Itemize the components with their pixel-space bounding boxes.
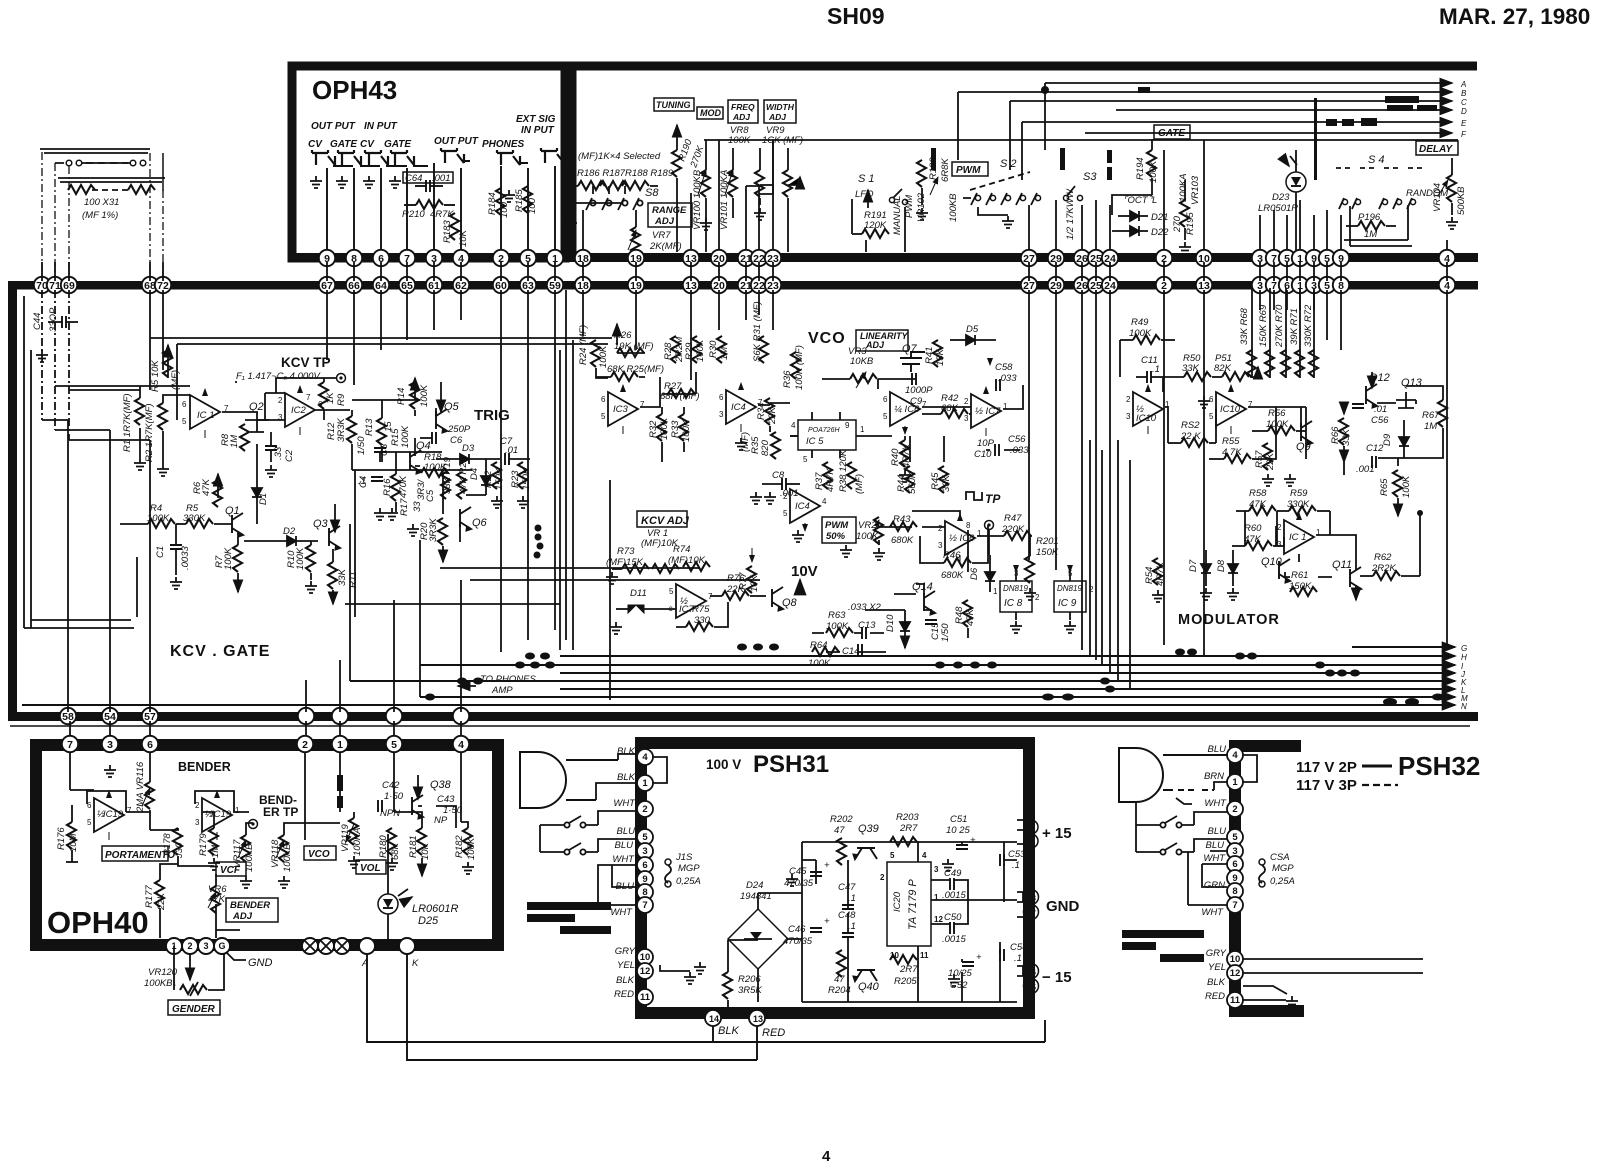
svg-text:3: 3	[964, 414, 969, 423]
jack ext sig	[541, 148, 564, 163]
resistor R6	[192, 474, 222, 507]
svg-text:6R8K: 6R8K	[940, 158, 951, 182]
svg-text:6: 6	[1209, 395, 1214, 404]
PSH32 connector bar	[1229, 742, 1241, 1015]
resistor R30	[708, 336, 730, 363]
svg-text:C51: C51	[950, 814, 967, 825]
svg-text:FREQ: FREQ	[731, 102, 755, 112]
resistor R179	[198, 828, 221, 870]
svg-text:500KB: 500KB	[1456, 186, 1467, 215]
capacitor C52	[948, 952, 982, 991]
capacitor C5	[416, 479, 436, 502]
jack GATE out	[338, 150, 361, 165]
pot VR100	[692, 140, 710, 252]
svg-text:R210: R210	[402, 209, 425, 220]
svg-text:2: 2	[1035, 593, 1040, 602]
op-amp IC7	[964, 387, 1008, 436]
resistor R21	[457, 457, 469, 499]
svg-text:RED: RED	[614, 989, 634, 1000]
resistor R62	[1360, 552, 1420, 580]
grounds kcv adj	[606, 572, 618, 584]
mains switch PSH31	[540, 816, 598, 855]
junction dot	[1041, 86, 1049, 94]
svg-text:MGP: MGP	[678, 863, 700, 874]
svg-text:D2: D2	[283, 526, 296, 537]
svg-text:3: 3	[203, 941, 208, 951]
top box: arrow bus lines A-F	[958, 83, 1452, 133]
svg-text:2K(MF): 2K(MF)	[649, 241, 682, 252]
svg-text:⌜OCT⌝L: ⌜OCT⌝L	[1123, 195, 1157, 206]
ground C2	[265, 465, 277, 477]
svg-text:BLK: BLK	[616, 975, 635, 986]
main box left edge	[8, 281, 17, 721]
svg-text:D22: D22	[1151, 227, 1169, 238]
resistor R191	[852, 199, 889, 238]
svg-text:D5: D5	[966, 324, 979, 335]
switch S4	[1336, 154, 1422, 209]
svg-text:GRN: GRN	[1204, 880, 1225, 891]
resistor R32	[648, 414, 670, 441]
svg-text:NP: NP	[434, 815, 448, 826]
resistor R1	[122, 393, 144, 452]
resistor R5 330K	[183, 503, 232, 528]
svg-text:47: 47	[834, 825, 845, 836]
bold mains bars psh32	[1122, 930, 1204, 962]
svg-text:50%: 50%	[826, 531, 846, 542]
svg-text:VR117: VR117	[232, 839, 243, 868]
PSH31 wire color labels	[610, 746, 636, 1000]
ground jacks	[310, 176, 322, 188]
resistor R64	[808, 640, 839, 669]
resistor R51	[1214, 353, 1258, 381]
-15 output	[1017, 964, 1072, 994]
svg-text:68K: 68K	[390, 842, 401, 860]
resistor R67	[1422, 400, 1447, 432]
grounds trig	[374, 508, 386, 520]
svg-text:TP: TP	[985, 492, 1001, 506]
switch S2	[963, 158, 1041, 215]
svg-text:R186 R187R188 R189: R186 R187R188 R189	[577, 168, 674, 179]
WIDTH ADJ label	[764, 100, 796, 123]
VCO label oph40	[304, 846, 336, 860]
svg-text:22K: 22K	[1265, 452, 1276, 471]
resistor R16	[382, 474, 409, 501]
svg-text:7: 7	[67, 739, 73, 751]
svg-text:A: A	[1460, 80, 1466, 89]
resistor R20	[419, 518, 447, 562]
resistor R180	[378, 828, 401, 870]
resistor R46	[941, 550, 971, 581]
svg-text:.1: .1	[848, 893, 856, 904]
capacitor C56	[1352, 404, 1389, 426]
resistor R48	[954, 600, 976, 627]
svg-text:ADJ: ADJ	[654, 216, 675, 227]
resistor R44	[896, 466, 918, 494]
svg-text:3: 3	[1126, 412, 1131, 421]
transistor Q14	[912, 581, 935, 615]
svg-text:Q3: Q3	[313, 518, 329, 530]
svg-text:Q39: Q39	[858, 823, 879, 835]
pot VR117	[232, 835, 255, 888]
switch S3	[1063, 171, 1097, 240]
+15 output	[1017, 820, 1072, 848]
diode D5	[950, 324, 996, 345]
svg-text:100KB: 100KB	[948, 193, 959, 222]
resistor R50	[1163, 353, 1222, 381]
svg-text:VCO: VCO	[308, 849, 330, 860]
svg-text:12: 12	[640, 966, 651, 977]
VOL label	[356, 860, 386, 874]
svg-text:VR7: VR7	[652, 230, 671, 241]
svg-text:33K: 33K	[337, 568, 348, 586]
capacitor C7	[500, 436, 530, 465]
GND output	[1017, 890, 1080, 920]
op-amp IC6	[883, 392, 927, 434]
svg-text:S 1: S 1	[858, 173, 875, 185]
ground VR100	[700, 218, 712, 230]
svg-text:330K R72: 330K R72	[1303, 304, 1314, 347]
ground phones	[503, 190, 515, 202]
svg-text:33K: 33K	[941, 474, 952, 492]
junction dots	[534, 525, 544, 559]
svg-text:VCO: VCO	[808, 330, 846, 347]
svg-text:D9: D9	[1382, 433, 1393, 446]
transistor Q39	[854, 823, 879, 859]
svg-text:4: 4	[642, 752, 648, 763]
svg-text:Q7: Q7	[902, 343, 918, 355]
svg-text:10M: 10M	[68, 833, 79, 852]
TUNING label	[654, 98, 694, 111]
svg-text:VR102: VR102	[916, 192, 927, 222]
svg-text:3: 3	[938, 541, 943, 550]
svg-text:2R7: 2R7	[899, 964, 918, 975]
svg-text:5: 5	[1232, 832, 1238, 843]
svg-text:R5 10K: R5 10K	[150, 360, 161, 392]
bus bar 2 (connector row lower / main box top)	[8, 281, 1478, 290]
svg-text:VR100 100KB: VR100 100KB	[692, 169, 703, 230]
svg-text:KCV . GATE: KCV . GATE	[170, 643, 270, 660]
svg-text:.1: .1	[848, 921, 856, 932]
resistor R56	[1252, 408, 1306, 435]
svg-text:8: 8	[642, 887, 647, 898]
diode D3	[436, 443, 500, 464]
capacitor C64	[403, 172, 453, 192]
svg-text:680K: 680K	[941, 570, 964, 581]
resistor R178	[162, 828, 185, 859]
svg-text:D11: D11	[630, 588, 647, 599]
svg-text:IC 1: IC 1	[1289, 532, 1306, 543]
svg-text:R1 1R7K(MF): R1 1R7K(MF)	[122, 393, 133, 452]
KCV ADJ label	[637, 511, 690, 527]
capacitor C8	[762, 470, 800, 499]
svg-text:22K: 22K	[156, 892, 167, 911]
pot freq adj	[755, 148, 772, 205]
svg-text:BLK: BLK	[617, 746, 636, 757]
OPH40 box frame	[36, 745, 498, 945]
resistor R75	[676, 602, 728, 631]
ground R206	[694, 962, 706, 974]
resistor R35	[740, 432, 780, 459]
svg-text:GND: GND	[1046, 898, 1080, 915]
svg-text:820: 820	[760, 439, 771, 456]
wire drops top labels	[583, 140, 773, 252]
svg-text:33OP: 33OP	[48, 307, 59, 332]
svg-text:2: 2	[1232, 804, 1237, 815]
resistor R59	[1277, 488, 1330, 515]
svg-text:VR118: VR118	[270, 839, 281, 868]
svg-text:B: B	[1461, 89, 1467, 98]
svg-text:NPN: NPN	[380, 808, 400, 819]
resistor R66	[1330, 402, 1352, 462]
svg-text:K: K	[412, 958, 419, 969]
capacitor C50	[942, 912, 966, 945]
resistor R4	[120, 503, 186, 528]
op-amp IC1b	[1277, 513, 1321, 562]
svg-text:R61: R61	[1291, 570, 1308, 581]
keyboard bus top-left	[40, 149, 165, 190]
svg-text:BLU: BLU	[1208, 744, 1227, 755]
svg-text:47K: 47K	[965, 608, 976, 626]
svg-text:GATE: GATE	[330, 139, 357, 150]
wire routing verticals left inside edge	[24, 290, 1204, 700]
resistor R195	[1172, 180, 1196, 240]
svg-text:470/35: 470/35	[783, 936, 813, 947]
svg-text:5: 5	[642, 832, 648, 843]
svg-text:KCV TP: KCV TP	[281, 355, 331, 370]
svg-text:Q6: Q6	[472, 517, 488, 529]
OPH40 top pins	[62, 736, 469, 752]
svg-text:C6: C6	[450, 435, 463, 446]
svg-text:100KA: 100KA	[1178, 173, 1189, 202]
svg-text:1: 1	[993, 587, 998, 596]
svg-text:R67: R67	[1422, 410, 1440, 421]
LINEARITY ADJ label	[856, 330, 908, 351]
svg-text:R36: R36	[782, 370, 793, 388]
resistor R31	[752, 301, 768, 363]
svg-text:4: 4	[822, 1148, 831, 1165]
svg-text:+ 15: + 15	[1042, 825, 1072, 842]
svg-text:MANUAL: MANUAL	[892, 195, 903, 235]
svg-text:Q5: Q5	[444, 401, 460, 413]
svg-text:POA726H: POA726H	[808, 427, 840, 434]
svg-text:5: 5	[783, 509, 788, 518]
pot VR7	[628, 210, 682, 254]
svg-text:10K: 10K	[458, 229, 469, 247]
resistor R58	[1236, 488, 1276, 515]
svg-text:100K: 100K	[223, 547, 234, 570]
pot VR3	[822, 346, 916, 388]
svg-text:100K: 100K	[1148, 160, 1159, 183]
resistor bank R68	[1239, 307, 1256, 377]
transistor Q1	[225, 505, 243, 537]
AC plug PSH31	[520, 752, 618, 808]
svg-text:R75: R75	[692, 604, 710, 615]
svg-text:1M: 1M	[229, 435, 240, 448]
svg-text:R177: R177	[144, 885, 155, 908]
bottom bus lines G-N	[22, 647, 1455, 705]
resistor R8	[220, 424, 249, 451]
svg-text:11: 11	[1230, 995, 1241, 1006]
resistor R76	[710, 573, 766, 600]
resistor R60	[1232, 523, 1284, 550]
svg-text:R66: R66	[1330, 426, 1341, 444]
svg-text:½ IC6: ½ IC6	[949, 533, 975, 544]
svg-text:C53: C53	[1008, 849, 1026, 860]
resistor R54	[1144, 558, 1166, 602]
svg-text:2: 2	[1126, 395, 1131, 404]
transistor Q3	[313, 504, 340, 550]
svg-text:1M: 1M	[1424, 421, 1437, 432]
svg-text:1: 1	[642, 778, 648, 789]
svg-text:9: 9	[642, 874, 647, 885]
svg-text:R22: R22	[483, 470, 494, 488]
svg-text:C42: C42	[382, 780, 400, 791]
capacitor C11	[1136, 355, 1163, 383]
svg-text:100K: 100K	[1401, 475, 1412, 498]
svg-text:SH09: SH09	[827, 3, 885, 29]
resistor R36	[782, 345, 805, 390]
capacitor C10	[974, 438, 999, 460]
resistor R57	[1254, 443, 1276, 486]
bold wire blobs	[931, 87, 1437, 180]
jack CV in	[365, 150, 388, 165]
svg-text:R54: R54	[1144, 567, 1155, 584]
svg-text:C58: C58	[995, 362, 1013, 373]
svg-text:15: 15	[1027, 983, 1036, 992]
svg-text:KCV ADJ: KCV ADJ	[641, 515, 690, 527]
svg-text:82K: 82K	[1214, 363, 1232, 374]
wire KCV TP net	[235, 378, 350, 420]
svg-text:MODULATOR: MODULATOR	[1178, 612, 1280, 628]
svg-text:R33: R33	[670, 420, 681, 438]
svg-text:100KB↓: 100KB↓	[144, 978, 177, 989]
wire IC1 input	[55, 378, 258, 464]
svg-text:D24: D24	[746, 880, 763, 891]
capacitor C6	[420, 424, 471, 446]
op-amp IC10a	[1126, 385, 1170, 434]
ground IC4	[735, 438, 747, 450]
svg-text:+: +	[824, 916, 830, 927]
wire plug to pins	[596, 754, 667, 905]
resistor R69	[1258, 304, 1274, 377]
svg-text:1M: 1M	[210, 845, 221, 858]
svg-text:(MF)1K×4 Selected: (MF)1K×4 Selected	[578, 151, 661, 162]
fuse CSA	[1259, 852, 1295, 887]
wire A K to PSH31	[367, 954, 1045, 1060]
op-amp IC19b	[195, 791, 240, 840]
BENDER ADJ label	[226, 898, 278, 922]
capacitor C15	[925, 620, 951, 642]
svg-text:R58: R58	[1249, 488, 1267, 499]
svg-text:DN819: DN819	[1003, 584, 1028, 593]
resistor R34	[756, 398, 778, 425]
top-right box frame	[572, 66, 1477, 258]
pot VR118	[270, 835, 293, 888]
pot VR2	[856, 517, 883, 544]
bottom-bar pins of main box	[60, 708, 469, 724]
dash mark plug	[1176, 798, 1192, 804]
svg-text:PWM: PWM	[956, 165, 981, 176]
resistor R52	[1168, 420, 1216, 447]
bus bar 1 (connector row upper)	[292, 253, 1478, 262]
svg-text:2: 2	[783, 492, 788, 501]
IC5 expander box	[790, 412, 866, 464]
capacitor C1	[155, 524, 191, 575]
resistor R71	[1289, 308, 1304, 377]
svg-text:C43: C43	[437, 794, 455, 805]
svg-text:WHT: WHT	[1203, 853, 1226, 864]
transistor Q8	[772, 587, 798, 611]
svg-text:R203: R203	[896, 812, 919, 823]
svg-text:4: 4	[458, 739, 464, 751]
diode D7	[1188, 550, 1212, 600]
svg-text:100K: 100K	[681, 419, 692, 442]
svg-text:R205: R205	[894, 976, 917, 987]
svg-text:5: 5	[803, 455, 808, 464]
PSH32 pins	[1227, 747, 1243, 1008]
svg-text:R37: R37	[814, 472, 825, 490]
svg-text:IC20: IC20	[892, 891, 903, 912]
capacitor C56b	[1008, 434, 1029, 456]
wire long horizontals lower left	[137, 350, 560, 697]
GND label	[226, 952, 273, 969]
TO PHONES AMP	[458, 674, 536, 696]
arrow 10V	[799, 580, 801, 592]
svg-text:C12: C12	[1366, 443, 1384, 454]
ground pin3	[104, 765, 116, 777]
resistor R45	[930, 466, 952, 493]
svg-text:RED: RED	[762, 1027, 785, 1039]
svg-text:C5: C5	[425, 489, 436, 502]
svg-text:2MA VR116: 2MA VR116	[135, 761, 146, 813]
resistor R42	[941, 393, 968, 418]
svg-text:100K: 100K	[400, 425, 411, 448]
svg-text:R45: R45	[930, 472, 941, 490]
svg-text:RS2: RS2	[1181, 420, 1200, 431]
resistor R18	[421, 452, 448, 477]
wire oph40 nets	[70, 752, 468, 946]
ground yel	[660, 965, 696, 984]
transistor Q38	[412, 775, 452, 819]
svg-text:.33: .33	[273, 446, 284, 460]
svg-text:TA 7179 P: TA 7179 P	[907, 879, 919, 930]
capacitor C2	[265, 432, 295, 462]
PWM 50% label	[822, 517, 856, 543]
svg-text:470K: 470K	[398, 475, 409, 498]
resistor R14	[396, 378, 430, 409]
svg-text:RANGE: RANGE	[652, 205, 687, 216]
OPH40 bottom pins	[166, 938, 415, 954]
svg-text:CSA: CSA	[1270, 852, 1290, 863]
svg-text:S8: S8	[645, 187, 659, 199]
wire keyboard drops	[42, 152, 163, 277]
resistor R183	[442, 213, 469, 247]
svg-text:½ IC7: ½ IC7	[975, 406, 1001, 417]
capacitor C9	[905, 373, 933, 407]
svg-text:100K: 100K	[695, 339, 706, 362]
transistor Q40	[854, 970, 880, 993]
junction blobs bus	[425, 644, 1444, 707]
svg-text:E: E	[1461, 119, 1467, 128]
GATE boxed label	[1154, 125, 1190, 139]
svg-text:R29: R29	[684, 342, 695, 360]
svg-text:15K: 15K	[935, 348, 946, 366]
svg-text:IC19: IC19	[103, 809, 124, 820]
svg-text:BLU: BLU	[615, 840, 634, 851]
svg-text:1: 1	[860, 425, 865, 434]
resistor R19	[441, 456, 453, 499]
capacitor C47	[838, 882, 856, 909]
